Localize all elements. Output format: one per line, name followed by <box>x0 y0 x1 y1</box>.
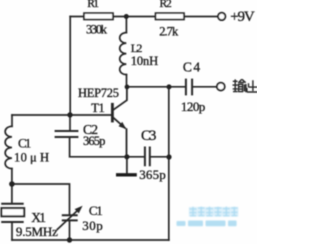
svg-text:9.5MHz: 9.5MHz <box>16 224 58 239</box>
svg-text:R1: R1 <box>87 0 99 10</box>
svg-text:365p: 365p <box>139 167 165 182</box>
svg-text:X1: X1 <box>31 210 46 225</box>
svg-text:T1: T1 <box>91 101 105 115</box>
svg-text:C3: C3 <box>141 128 156 144</box>
svg-text:+9V: +9V <box>230 9 255 25</box>
svg-text:120p: 120p <box>181 99 205 114</box>
svg-text:2.7k: 2.7k <box>159 24 179 38</box>
svg-text:HEP725: HEP725 <box>78 86 119 100</box>
svg-text:C1: C1 <box>18 136 31 151</box>
svg-text:C1: C1 <box>89 203 103 218</box>
svg-text:R2: R2 <box>160 0 172 10</box>
svg-text:10 μ H: 10 μ H <box>14 151 49 165</box>
svg-text:365p: 365p <box>83 134 105 148</box>
svg-text:330k: 330k <box>86 23 108 37</box>
svg-text:10nH: 10nH <box>131 54 158 68</box>
svg-text:C4: C4 <box>183 59 200 74</box>
svg-text:30p: 30p <box>82 218 102 233</box>
